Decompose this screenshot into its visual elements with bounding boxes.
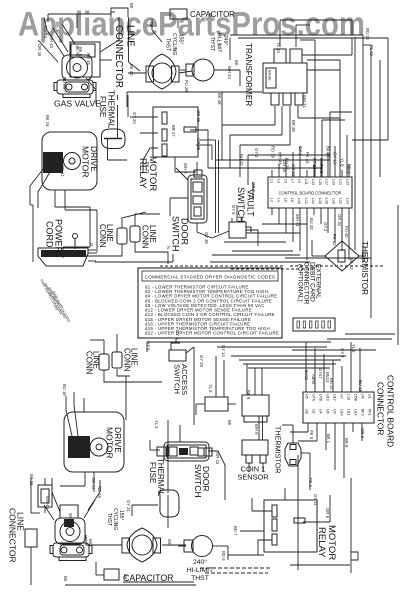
svg-text:DEBIT CARD: DEBIT CARD: [309, 262, 316, 302]
svg-text:LINE: LINE: [125, 25, 136, 47]
svg-text:RD 49: RD 49: [97, 486, 102, 499]
svg-text:CYCLING: CYCLING: [112, 508, 118, 530]
svg-text:L3: L3: [276, 179, 280, 183]
svg-text:SWITCH: SWITCH: [171, 216, 181, 252]
svg-text:RD 2: RD 2: [346, 164, 351, 174]
svg-text:THERMISTOR: THERMISTOR: [274, 426, 283, 473]
svg-text:GY 9: GY 9: [231, 205, 236, 215]
svg-text:WH: WH: [167, 539, 172, 546]
svg-text:YL 3: YL 3: [154, 420, 159, 429]
svg-text:U7A: U7A: [312, 394, 316, 402]
svg-text:OR 10: OR 10: [215, 452, 220, 465]
svg-text:PU 9: PU 9: [319, 164, 324, 174]
svg-text:MOTOR: MOTOR: [105, 427, 115, 458]
svg-text:U3: U3: [333, 409, 337, 414]
svg-text:GY 2: GY 2: [298, 146, 303, 156]
svg-text:BK 14: BK 14: [91, 478, 96, 490]
svg-text:CONNECTOR: CONNECTOR: [303, 262, 310, 305]
svg-text:WH 9: WH 9: [254, 424, 259, 435]
svg-text:FUSE: FUSE: [98, 96, 107, 117]
svg-text:WH 45: WH 45: [277, 152, 282, 165]
svg-text:U13: U13: [326, 394, 330, 401]
svg-text:WH 8: WH 8: [183, 163, 188, 174]
svg-text:BU 32: BU 32: [239, 154, 244, 166]
svg-text:U14: U14: [354, 409, 358, 416]
svg-text:OR 45: OR 45: [37, 44, 42, 57]
svg-text:U2: U2: [312, 409, 316, 414]
svg-text:YL 40: YL 40: [276, 42, 281, 53]
svg-text:BK 27: BK 27: [326, 146, 331, 158]
svg-text:CONTROL BOARD: CONTROL BOARD: [386, 375, 396, 447]
svg-text:LINE: LINE: [16, 512, 26, 531]
svg-text:155°: 155°: [178, 34, 184, 44]
svg-text:L23: L23: [345, 179, 349, 185]
svg-text:A8H4: A8H4: [311, 374, 316, 385]
svg-text:U11: U11: [347, 409, 351, 415]
svg-text:BU 13: BU 13: [358, 380, 363, 392]
svg-text:THST: THST: [191, 575, 209, 582]
svg-text:BK 12: BK 12: [349, 258, 354, 270]
svg-text:WH 41: WH 41: [295, 214, 300, 227]
svg-text:L14: L14: [311, 198, 315, 204]
svg-text:BU 18: BU 18: [62, 384, 67, 396]
svg-text:BK2: BK2: [361, 409, 365, 416]
svg-text:LINE: LINE: [92, 351, 101, 369]
svg-text:BR 8: BR 8: [344, 438, 349, 448]
svg-text:L1: L1: [270, 179, 274, 183]
svg-text:YL 8: YL 8: [340, 158, 345, 167]
svg-text:L5: L5: [283, 179, 287, 183]
svg-text:LINE: LINE: [105, 224, 114, 242]
svg-text:U8: U8: [305, 409, 309, 414]
svg-text:L18: L18: [347, 394, 351, 400]
svg-text:240°: 240°: [222, 35, 228, 45]
svg-text:GY 13: GY 13: [333, 152, 338, 164]
svg-text:L20: L20: [332, 198, 336, 204]
svg-text:THST: THST: [106, 513, 112, 526]
svg-text:U7: U7: [340, 394, 344, 399]
svg-text:PK1: PK1: [368, 409, 372, 416]
svg-text:RD 22: RD 22: [365, 28, 370, 41]
svg-text:L22: L22: [339, 198, 343, 204]
svg-text:RD 39: RD 39: [271, 146, 276, 159]
svg-text:155°: 155°: [118, 510, 124, 520]
svg-text:L4: L4: [276, 198, 280, 202]
svg-text:GY 34: GY 34: [132, 112, 137, 124]
svg-text:BK: BK: [129, 3, 134, 9]
svg-text:CAPACITOR: CAPACITOR: [190, 10, 235, 19]
svg-text:BASE: BASE: [268, 70, 273, 81]
svg-text:BU 32: BU 32: [309, 218, 314, 230]
svg-text:THST: THST: [165, 38, 171, 51]
svg-text:GY 31: GY 31: [126, 500, 131, 512]
svg-text:BK 19: BK 19: [45, 115, 50, 127]
svg-text:WH 22: WH 22: [68, 513, 73, 526]
svg-text:BN 7: BN 7: [233, 526, 238, 536]
svg-text:DOOR: DOOR: [180, 218, 190, 246]
svg-text:L11: L11: [304, 179, 308, 185]
svg-text:240°: 240°: [193, 558, 207, 566]
svg-text:L6: L6: [283, 198, 287, 202]
svg-text:L16: L16: [318, 198, 322, 204]
svg-text:PU 40: PU 40: [344, 226, 349, 238]
svg-text:BK 9: BK 9: [246, 390, 251, 400]
svg-text:OR 32: OR 32: [291, 164, 296, 177]
svg-text:L19: L19: [332, 179, 336, 185]
svg-text:CYCLING: CYCLING: [171, 33, 177, 55]
svg-text:WH 43: WH 43: [49, 35, 54, 48]
svg-text:DRIVE: DRIVE: [89, 146, 99, 172]
svg-text:GY 11: GY 11: [313, 494, 318, 506]
svg-text:TH'ST: TH'ST: [209, 37, 215, 51]
svg-text:MOTOR: MOTOR: [326, 525, 337, 560]
svg-text:HI-LIMIT: HI-LIMIT: [187, 567, 213, 574]
svg-text:(OPTIONAL): (OPTIONAL): [297, 264, 304, 302]
svg-text:GR 9: GR 9: [325, 508, 330, 518]
svg-text:YL 5: YL 5: [208, 384, 213, 393]
svg-text:GY47: GY47: [318, 368, 323, 379]
svg-text:BK: BK: [123, 574, 128, 580]
svg-text:BK 25: BK 25: [29, 474, 34, 486]
svg-text:L8: L8: [290, 198, 294, 202]
svg-text:L15: L15: [318, 179, 322, 185]
svg-text:BK 22: BK 22: [129, 64, 134, 76]
svg-text:U10: U10: [340, 409, 344, 416]
svg-text:DRIVE: DRIVE: [113, 427, 123, 453]
svg-text:YL 6: YL 6: [351, 344, 356, 353]
svg-text:GY 2: GY 2: [254, 148, 259, 158]
svg-text:EXTERNAL: EXTERNAL: [315, 264, 322, 299]
svg-text:BU 32: BU 32: [284, 158, 289, 170]
svg-text:L12: L12: [304, 198, 308, 204]
svg-text:BK 48: BK 48: [217, 93, 222, 105]
svg-text:OR 36: OR 36: [196, 110, 201, 123]
svg-text:GR 38: GR 38: [196, 138, 201, 151]
svg-text:RD 45: RD 45: [86, 53, 91, 66]
svg-text:BK: BK: [234, 60, 239, 66]
svg-text:RD 41: RD 41: [60, 165, 65, 178]
svg-text:THERMAL: THERMAL: [156, 458, 165, 497]
svg-text:U9: U9: [361, 394, 365, 399]
svg-text:L17: L17: [325, 179, 329, 185]
svg-text:GY 8: GY 8: [340, 348, 345, 358]
svg-text:THERMISTOR: THERMISTOR: [360, 241, 369, 295]
svg-text:BK: BK: [227, 420, 232, 426]
svg-text:ACCESS: ACCESS: [180, 364, 189, 395]
svg-text:U7B: U7B: [319, 394, 323, 402]
svg-text:U1: U1: [368, 394, 372, 399]
svg-text:SENSOR: SENSOR: [237, 473, 268, 482]
svg-text:L7: L7: [290, 179, 294, 183]
svg-text:GY 30: GY 30: [204, 232, 209, 244]
svg-text:N: N: [166, 246, 171, 249]
svg-text:BN 30: BN 30: [55, 22, 60, 34]
svg-text:PK 5: PK 5: [309, 430, 314, 440]
svg-text:BR 34: BR 34: [312, 158, 317, 170]
svg-text:WH 34: WH 34: [227, 66, 232, 79]
svg-text:GY 29: GY 29: [199, 355, 204, 367]
svg-text:G: G: [89, 243, 94, 246]
svg-text:THERMAL: THERMAL: [107, 90, 116, 129]
svg-text:CONNECTOR: CONNECTOR: [113, 25, 124, 88]
svg-text:WH 49: WH 49: [45, 496, 50, 509]
svg-text:SWITCH: SWITCH: [236, 187, 246, 223]
svg-text:RD 43: RD 43: [43, 26, 48, 39]
svg-text:FUSE: FUSE: [148, 462, 157, 483]
svg-text:CAPACITOR: CAPACITOR: [123, 573, 174, 583]
svg-text:L13: L13: [311, 179, 315, 185]
svg-text:PL 40: PL 40: [369, 45, 374, 56]
svg-text:L24: L24: [345, 198, 349, 204]
svg-text:OR 7: OR 7: [251, 182, 256, 192]
svg-text:VAULT: VAULT: [246, 189, 256, 217]
svg-text:GY 6: GY 6: [175, 330, 180, 340]
svg-text:BR 27: BR 27: [171, 125, 176, 137]
svg-text:BR 48: BR 48: [291, 120, 296, 132]
svg-text:BK: BK: [63, 576, 68, 582]
svg-text:DOOR: DOOR: [201, 466, 211, 492]
svg-text:BK: BK: [88, 539, 93, 545]
svg-text:U4: U4: [319, 409, 323, 414]
svg-text:BK: BK: [149, 22, 154, 28]
svg-text:d22 - UPPER DRYER MOTOR CONTRO: d22 - UPPER DRYER MOTOR CONTROL CIRCUIT …: [145, 331, 279, 336]
svg-text:POWER: POWER: [54, 219, 64, 254]
svg-text:U6: U6: [326, 409, 330, 414]
svg-text:U5: U5: [305, 394, 309, 399]
svg-text:RD 6: RD 6: [221, 551, 226, 561]
svg-text:GY 2: GY 2: [323, 222, 328, 232]
svg-text:BK 57: BK 57: [78, 47, 83, 59]
svg-text:HI-LIMIT: HI-LIMIT: [216, 33, 222, 52]
svg-text:GY 14: GY 14: [221, 345, 226, 357]
svg-text:OR 34: OR 34: [337, 214, 342, 227]
svg-text:L9: L9: [297, 179, 301, 183]
svg-text:GAS VALVE: GAS VALVE: [54, 99, 101, 109]
svg-text:LINE: LINE: [148, 225, 157, 243]
svg-text:CONTROL BOARD CONNECTOR: CONTROL BOARD CONNECTOR: [278, 191, 341, 196]
svg-text:L21: L21: [339, 179, 343, 185]
svg-text:BN13: BN13: [325, 372, 330, 383]
svg-text:U12: U12: [333, 394, 337, 401]
svg-text:PU 28: PU 28: [184, 80, 189, 92]
svg-text:L2: L2: [270, 198, 274, 202]
svg-text:PK 32: PK 32: [332, 234, 337, 246]
svg-text:PK 40: PK 40: [305, 152, 310, 164]
svg-text:RELAY: RELAY: [316, 527, 327, 558]
svg-text:LINE: LINE: [130, 348, 139, 366]
svg-text:GY 6: GY 6: [146, 341, 151, 351]
svg-text:PK 1: PK 1: [308, 478, 313, 488]
svg-text:U5B: U5B: [354, 394, 358, 402]
svg-text:CONNECTOR: CONNECTOR: [376, 382, 386, 435]
svg-text:RD 46: RD 46: [62, 77, 67, 90]
svg-text:COMMERCIAL STACKED DRYER DIAGN: COMMERCIAL STACKED DRYER DIAGNOSTIC CODE…: [145, 275, 276, 280]
svg-text:BU11: BU11: [304, 370, 309, 381]
svg-text:MOTOR: MOTOR: [81, 146, 91, 177]
svg-text:TRANSFORMER: TRANSFORMER: [244, 43, 253, 106]
svg-text:BK 23: BK 23: [145, 162, 150, 174]
svg-text:OR 3: OR 3: [360, 428, 365, 438]
svg-text:L18: L18: [325, 198, 329, 204]
svg-text:BK 1: BK 1: [326, 434, 331, 444]
svg-text:WH 21: WH 21: [302, 95, 307, 108]
svg-text:L10: L10: [297, 198, 301, 204]
svg-text:CORD: CORD: [45, 221, 55, 248]
